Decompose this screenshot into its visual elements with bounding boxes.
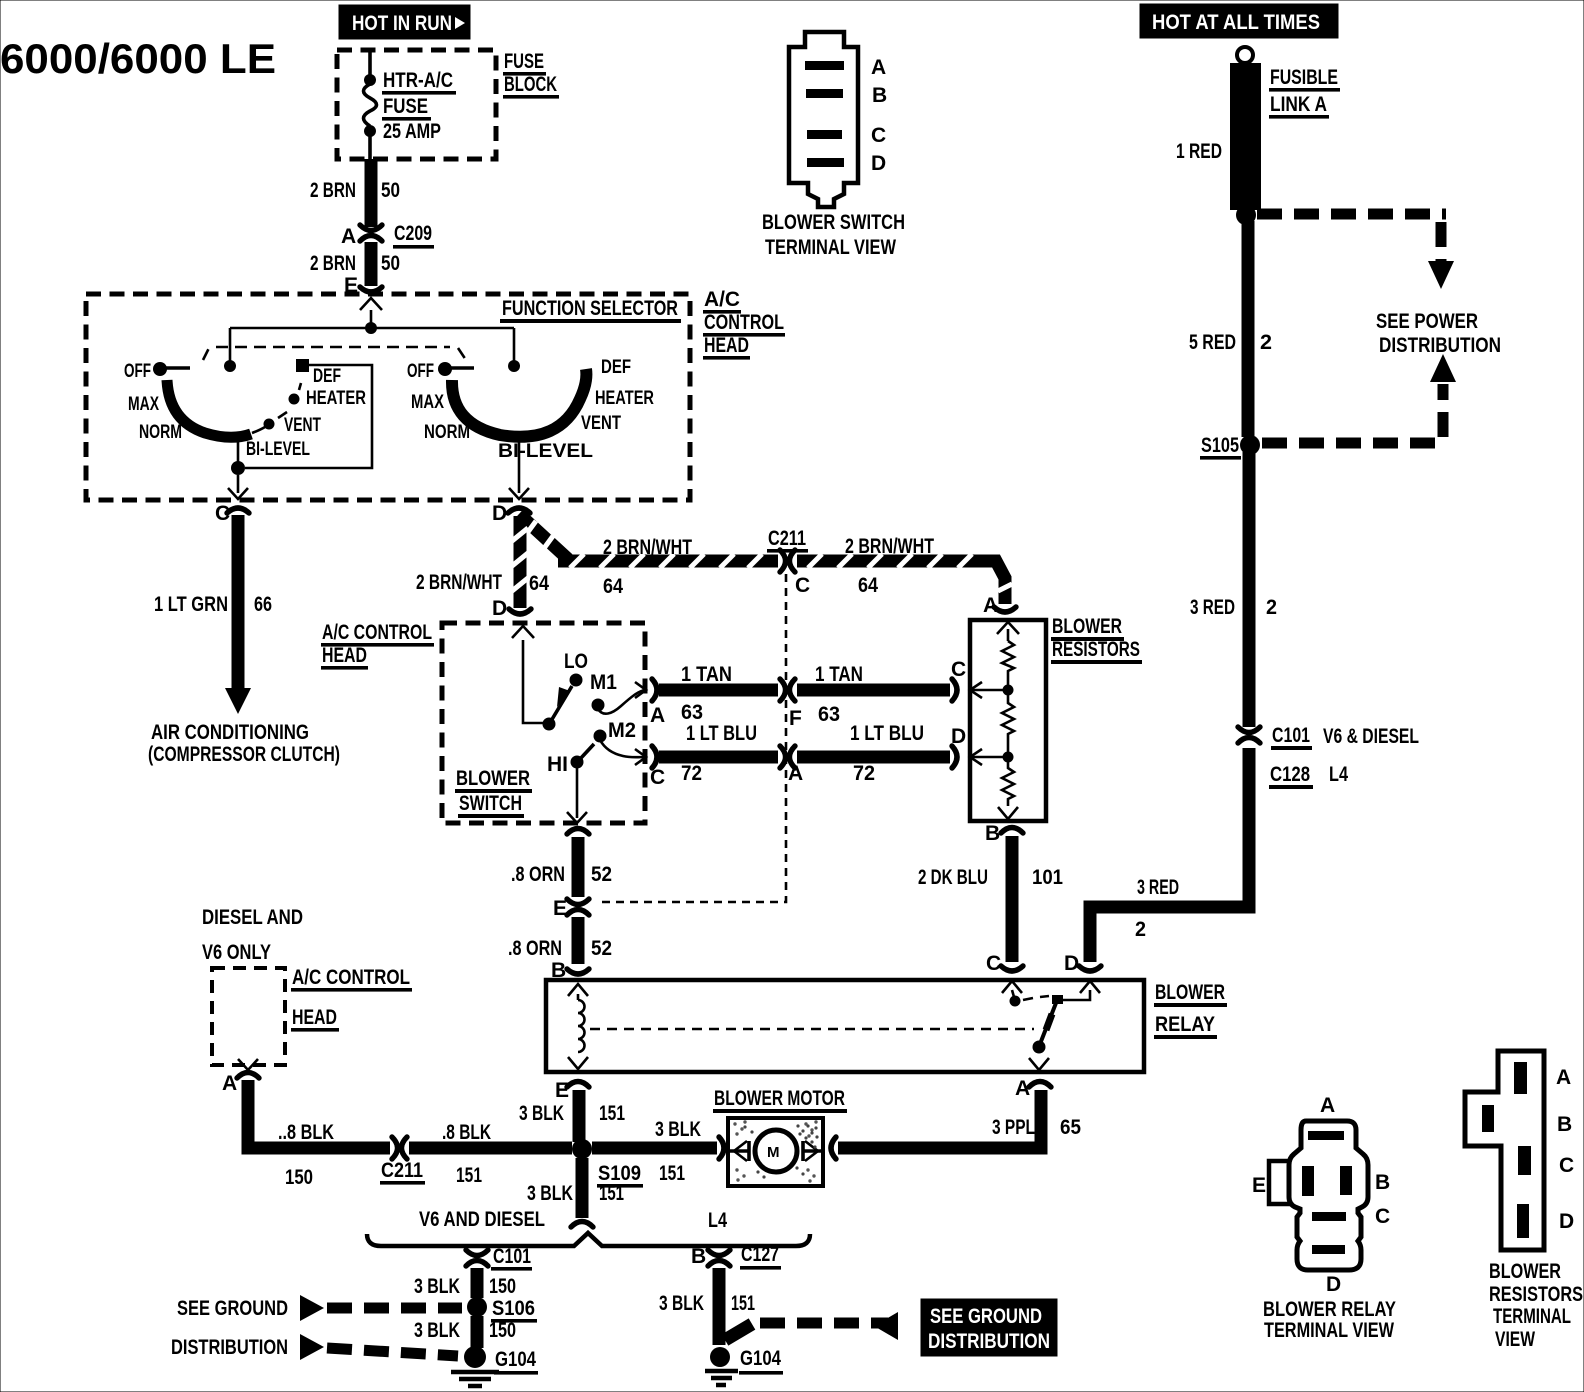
- connector C211 dashed outline: [598, 574, 786, 902]
- svg-text:50: 50: [381, 179, 400, 202]
- svg-text:3 PPL: 3 PPL: [992, 1116, 1035, 1139]
- svg-text:DIESEL AND: DIESEL AND: [202, 906, 303, 929]
- label 2 BRN/WHT 64 right: [845, 535, 934, 597]
- pin C blower switch: [635, 746, 665, 789]
- svg-text:2 BRN/WHT: 2 BRN/WHT: [416, 571, 502, 594]
- air conditioning load label: [148, 721, 340, 766]
- svg-text:A: A: [1556, 1066, 1571, 1089]
- left rotary switch OFF contact: [153, 362, 190, 376]
- wire 1 LT BLU 72 left: [659, 751, 778, 764]
- svg-text:RESISTORS: RESISTORS: [1489, 1283, 1583, 1306]
- svg-text:50: 50: [381, 252, 400, 275]
- svg-text:72: 72: [853, 762, 875, 785]
- wire 3 RED 2 upper: [1243, 452, 1256, 727]
- wire into fuse: [368, 50, 372, 80]
- svg-text:101: 101: [1032, 866, 1063, 889]
- svg-text:72: 72: [681, 762, 702, 785]
- svg-text:HEATER: HEATER: [306, 388, 366, 409]
- svg-text:D: D: [492, 502, 507, 525]
- dashed wire to ground distribution right: [725, 1312, 898, 1340]
- label 3 BLK 151: [519, 1102, 625, 1125]
- svg-text:C: C: [1559, 1154, 1574, 1177]
- svg-text:BI-LEVEL: BI-LEVEL: [246, 439, 310, 460]
- svg-text:1 LT BLU: 1 LT BLU: [850, 722, 924, 745]
- svg-text:HEAD: HEAD: [322, 644, 367, 667]
- blower resistors terminal labels: [1556, 1066, 1574, 1233]
- label 1 LT BLU 72 left: [681, 722, 757, 785]
- svg-text:..8 BLK: ..8 BLK: [278, 1121, 334, 1144]
- pin C blower relay: [986, 952, 1023, 993]
- svg-text:VENT: VENT: [581, 413, 621, 434]
- blower switch terminal view connector: [789, 32, 858, 207]
- svg-text:65: 65: [1060, 1116, 1081, 1139]
- dashed wire to power distribution: [1257, 214, 1454, 289]
- resistor R2: [1002, 695, 1014, 752]
- svg-text:3 BLK: 3 BLK: [659, 1292, 704, 1315]
- svg-text:E: E: [555, 1079, 569, 1102]
- svg-text:A/C CONTROL: A/C CONTROL: [292, 966, 410, 989]
- a/c control head diesel box: [212, 968, 285, 1065]
- svg-text:AIR CONDITIONING: AIR CONDITIONING: [151, 721, 309, 744]
- diesel and v6 only note: [202, 906, 303, 964]
- svg-text:E: E: [1252, 1174, 1266, 1197]
- svg-text:V6 AND DIESEL: V6 AND DIESEL: [419, 1208, 545, 1231]
- svg-text:.8 BLK: .8 BLK: [442, 1121, 491, 1144]
- hot at all times flag: [1140, 4, 1338, 38]
- svg-text:64: 64: [529, 572, 549, 595]
- dashed wire from S105 to power distribution: [1262, 354, 1456, 443]
- svg-text:FUSIBLE: FUSIBLE: [1270, 66, 1338, 89]
- relay coil to contact dashed link: [590, 1028, 1034, 1031]
- wire 2 BRN/WHT 64 hatched vertical: [512, 516, 528, 608]
- svg-text:25 AMP: 25 AMP: [383, 120, 441, 143]
- wire .8 ORN 52 upper: [567, 829, 589, 898]
- blower relay terminal labels: [1252, 1094, 1390, 1296]
- label 1 LT GRN 66: [154, 593, 272, 616]
- splice S106: [467, 1297, 537, 1323]
- resistor chain top: [1007, 629, 1010, 641]
- blower resistors terminal view connector: [1465, 1051, 1544, 1250]
- svg-text:HOT AT ALL TIMES: HOT AT ALL TIMES: [1152, 11, 1320, 34]
- svg-text:C: C: [650, 766, 665, 789]
- pin B connector C127: [691, 1243, 781, 1270]
- svg-text:3 BLK: 3 BLK: [527, 1182, 573, 1205]
- svg-text:C127: C127: [741, 1243, 779, 1266]
- A/C control head function selector box: [86, 294, 690, 500]
- wire 3 BLK 151 below S109: [571, 1158, 593, 1227]
- wire M1 to pin A: [598, 690, 645, 714]
- svg-text:A: A: [222, 1072, 237, 1095]
- svg-text:DISTRIBUTION: DISTRIBUTION: [928, 1330, 1050, 1353]
- see ground distribution flag right: [921, 1299, 1057, 1356]
- connector C209: [341, 222, 434, 249]
- svg-text:A/C: A/C: [704, 288, 740, 311]
- svg-text:FUSE: FUSE: [504, 50, 544, 73]
- svg-text:SWITCH: SWITCH: [459, 792, 522, 815]
- label 2 BRN 50 lower: [310, 252, 400, 275]
- svg-text:RELAY: RELAY: [1155, 1013, 1215, 1036]
- svg-text:63: 63: [681, 701, 703, 724]
- svg-text:B: B: [872, 84, 887, 107]
- svg-text:2 BRN/WHT: 2 BRN/WHT: [603, 536, 692, 559]
- svg-text:1 TAN: 1 TAN: [815, 663, 863, 686]
- svg-text:64: 64: [603, 575, 623, 598]
- svg-text:DISTRIBUTION: DISTRIBUTION: [1379, 334, 1501, 357]
- svg-text:CONTROL: CONTROL: [704, 311, 784, 334]
- left switch position labels: [124, 361, 366, 460]
- label 3 BLK 151 motor wire: [655, 1118, 701, 1185]
- wire .8 ORN 52 lower: [572, 917, 585, 964]
- node selector feed: [365, 322, 377, 334]
- label 3 PPL 65: [992, 1116, 1081, 1139]
- svg-text:3 BLK: 3 BLK: [414, 1275, 460, 1298]
- svg-text:HOT IN RUN: HOT IN RUN: [352, 12, 452, 35]
- svg-text:HEATER: HEATER: [595, 388, 654, 409]
- svg-text:151: 151: [456, 1164, 482, 1187]
- svg-text:VIEW: VIEW: [1495, 1328, 1535, 1351]
- contact HI: [547, 744, 594, 776]
- node fuse top: [364, 74, 376, 86]
- right switch output tap: [509, 440, 529, 499]
- svg-text:150: 150: [489, 1319, 516, 1342]
- svg-text:151: 151: [659, 1162, 685, 1185]
- svg-text:A: A: [788, 762, 803, 785]
- svg-text:HEAD: HEAD: [704, 334, 749, 357]
- svg-text:HTR-A/C: HTR-A/C: [383, 69, 453, 92]
- node fuse bottom: [364, 125, 376, 137]
- svg-text:V6 ONLY: V6 ONLY: [202, 941, 271, 964]
- svg-text:SEE GROUND: SEE GROUND: [177, 1297, 288, 1320]
- wire 2 BRN/WHT 64 hatched diagonal: [519, 514, 568, 559]
- svg-text:6000/6000 LE: 6000/6000 LE: [0, 35, 276, 82]
- svg-text:C128: C128: [1270, 763, 1310, 786]
- svg-text:3 BLK: 3 BLK: [414, 1319, 460, 1342]
- a/c control head blower switch box: [442, 623, 645, 823]
- svg-text:L4: L4: [708, 1209, 727, 1232]
- node left switch output: [231, 461, 245, 475]
- svg-text:B: B: [985, 822, 1000, 845]
- wire 2 DK BLU 101: [1006, 836, 1019, 962]
- resistor chain bottom arrow: [998, 807, 1018, 819]
- fusible link label: [1269, 66, 1340, 119]
- svg-text:C101: C101: [493, 1245, 531, 1268]
- wire 1 TAN 63 left: [659, 684, 778, 697]
- svg-text:C: C: [1375, 1205, 1390, 1228]
- blower resistors label: [1051, 615, 1142, 664]
- pin B blower relay: [551, 959, 589, 996]
- svg-text:D: D: [871, 152, 886, 175]
- svg-text:G104: G104: [740, 1347, 781, 1370]
- blower relay terminal view connector: [1269, 1121, 1368, 1270]
- svg-text:1 RED: 1 RED: [1176, 140, 1222, 163]
- wire selector feed: [230, 310, 514, 363]
- svg-text:FUNCTION SELECTOR: FUNCTION SELECTOR: [502, 297, 678, 320]
- label 5 RED 2: [1189, 331, 1272, 354]
- svg-text:F: F: [789, 707, 802, 730]
- svg-text:2: 2: [1266, 596, 1277, 619]
- connector C211 pin A: [780, 746, 803, 785]
- svg-text:C211: C211: [381, 1159, 423, 1182]
- right switch wiper arc MAX to DEF: [452, 369, 586, 437]
- left switch wiper arc MAX-NORM-BI-LEVEL: [167, 380, 251, 437]
- blower switch wiper arm: [551, 686, 572, 721]
- wire fuse to box edge: [368, 135, 372, 159]
- splice S109: [572, 1139, 643, 1188]
- label 2 DK BLU 101: [918, 866, 1063, 889]
- svg-text:63: 63: [818, 703, 840, 726]
- wire 1 LT GRN 66: [225, 515, 251, 714]
- left switch DEF feedback line: [245, 365, 372, 468]
- svg-text:VENT: VENT: [284, 415, 321, 436]
- svg-text:150: 150: [285, 1166, 313, 1189]
- see ground distribution note left: [171, 1297, 288, 1359]
- svg-text:2: 2: [1135, 918, 1146, 941]
- svg-text:3 RED: 3 RED: [1137, 876, 1179, 899]
- wire 5 RED 2: [1242, 221, 1255, 437]
- svg-text:151: 151: [731, 1292, 755, 1315]
- label 3 BLK 151 right: [659, 1292, 755, 1315]
- blower switch feed wire: [523, 640, 543, 723]
- svg-text:BLOWER: BLOWER: [456, 767, 530, 790]
- svg-text:BLOWER: BLOWER: [1489, 1260, 1561, 1283]
- resistor R1: [1002, 641, 1014, 685]
- svg-text:52: 52: [591, 937, 612, 960]
- label 1 TAN 63 left: [681, 663, 732, 724]
- pin E blower relay: [555, 1079, 589, 1102]
- svg-text:BLOWER: BLOWER: [1052, 615, 1122, 638]
- svg-text:.8 ORN: .8 ORN: [508, 937, 562, 960]
- svg-text:150: 150: [489, 1275, 516, 1298]
- svg-text:B: B: [1557, 1113, 1572, 1136]
- svg-text:2: 2: [1260, 331, 1272, 354]
- left switch thin arc VENT-HEATER-DEF: [252, 359, 309, 433]
- relay armature: [1029, 995, 1063, 1070]
- dashed wire to G104 left: [300, 1334, 458, 1360]
- hot-in-run flag: [339, 5, 470, 39]
- right rotary switch OFF contact: [438, 362, 474, 376]
- connector C211 pin F: [780, 679, 802, 730]
- label .8 BLK 151: [442, 1121, 491, 1187]
- wire 3 RED 2 feed to relay: [1090, 748, 1249, 962]
- svg-text:HEAD: HEAD: [292, 1006, 337, 1029]
- svg-text:TERMINAL VIEW: TERMINAL VIEW: [765, 236, 896, 259]
- label 3 RED 2 lower: [1135, 876, 1179, 941]
- contact LO: [564, 650, 588, 687]
- svg-text:151: 151: [599, 1182, 624, 1205]
- svg-text:DISTRIBUTION: DISTRIBUTION: [171, 1336, 288, 1359]
- svg-text:BLOCK: BLOCK: [504, 73, 557, 96]
- wire 3 PPL 65: [838, 1090, 1041, 1148]
- wire 3 BLK 151 relay to S109: [573, 1090, 586, 1142]
- svg-text:(COMPRESSOR CLUTCH): (COMPRESSOR CLUTCH): [148, 743, 340, 766]
- svg-text:M2: M2: [608, 719, 636, 742]
- label .8 ORN 52 lower: [508, 937, 612, 960]
- wire M2 to pin C: [600, 740, 645, 757]
- svg-text:D: D: [492, 597, 507, 620]
- wire 3 BLK 150 upper: [471, 1268, 484, 1298]
- label 3 BLK 150 upper: [414, 1275, 516, 1298]
- blower relay box: [546, 980, 1144, 1072]
- svg-text:MAX: MAX: [411, 392, 444, 413]
- svg-text:M1: M1: [590, 671, 617, 694]
- svg-text:D: D: [1326, 1273, 1341, 1296]
- resistor R3: [1002, 762, 1014, 806]
- svg-text:3 BLK: 3 BLK: [519, 1102, 564, 1125]
- svg-text:V6 & DIESEL: V6 & DIESEL: [1323, 725, 1419, 748]
- svg-text:C211: C211: [768, 527, 806, 550]
- wire 3 BLK 150 lower: [471, 1316, 484, 1348]
- svg-text:LINK A: LINK A: [1270, 93, 1327, 116]
- svg-text:B: B: [691, 1245, 706, 1268]
- splice S105: [1200, 434, 1260, 460]
- connector C211 top: [767, 527, 810, 597]
- svg-text:BLOWER: BLOWER: [1155, 981, 1225, 1004]
- relay fixed contact D: [1062, 990, 1090, 1000]
- pin A blower resistors: [983, 594, 1019, 634]
- svg-text:BI-LEVEL: BI-LEVEL: [498, 441, 593, 462]
- svg-text:5 RED: 5 RED: [1189, 331, 1236, 354]
- svg-text:DEF: DEF: [601, 357, 631, 378]
- svg-text:2 BRN: 2 BRN: [310, 252, 356, 275]
- wire HI to pin B: [567, 768, 587, 823]
- a/c control head label mid: [321, 621, 434, 670]
- svg-text:M: M: [767, 1144, 780, 1161]
- svg-text:C: C: [795, 574, 810, 597]
- node resistor tap C: [1003, 685, 1014, 696]
- wire 2 BRN/WHT 64 hatched right of C211: [797, 554, 1012, 604]
- svg-text:3 RED: 3 RED: [1190, 596, 1235, 619]
- label 3 BLK 151 below S109: [527, 1182, 624, 1205]
- pin B blower resistors: [985, 822, 1023, 845]
- function selector title: [500, 297, 681, 323]
- fuse block label: [503, 50, 559, 99]
- right switch position labels: [407, 357, 654, 462]
- a/c control head label: [703, 288, 785, 360]
- connector C101 C128 inline: [1238, 724, 1419, 789]
- blower motor label: [713, 1087, 847, 1113]
- label 2 BRN 50: [310, 179, 400, 202]
- svg-text:OFF: OFF: [124, 361, 151, 382]
- svg-text:1 LT BLU: 1 LT BLU: [686, 722, 757, 745]
- connector C211 pin E: [553, 897, 589, 920]
- blower switch terminal view caption: [762, 211, 905, 259]
- contact M1: [590, 671, 617, 712]
- pin A blower switch: [635, 679, 665, 727]
- svg-text:1 LT GRN: 1 LT GRN: [154, 593, 228, 616]
- svg-text:64: 64: [858, 574, 878, 597]
- svg-text:NORM: NORM: [424, 422, 470, 443]
- fusible link A: [1230, 63, 1261, 210]
- svg-text:C209: C209: [394, 222, 432, 245]
- wire 3 BLK 151 right: [713, 1268, 726, 1345]
- relay fixed contact C: [1010, 990, 1050, 1007]
- relay coil: [568, 994, 588, 1069]
- svg-text:B: B: [1375, 1171, 1390, 1194]
- pin D below selector: [492, 502, 530, 525]
- wire 1 LT BLU 72 right: [797, 751, 950, 764]
- label 2 BRN/WHT 64 left: [603, 536, 692, 598]
- blower switch label: [455, 767, 532, 818]
- left switch bi-level tap: [237, 438, 240, 462]
- svg-text:D: D: [1064, 952, 1079, 975]
- wire 2 BRN/WHT 64 hatched horizontal to C211: [558, 554, 778, 568]
- node left switch input: [224, 360, 236, 372]
- connector C211 bottom: [380, 1137, 425, 1185]
- node below fusible link: [1236, 205, 1256, 225]
- wire 3 BLK 151 S109 to motor: [592, 1142, 717, 1155]
- svg-text:S106: S106: [492, 1297, 535, 1320]
- pin C below selector: [215, 502, 249, 525]
- node blower switch pivot: [543, 718, 556, 731]
- label ..8 BLK 150: [278, 1121, 334, 1189]
- svg-text:A: A: [1320, 1094, 1335, 1117]
- svg-text:TERMINAL: TERMINAL: [1493, 1305, 1571, 1328]
- svg-text:D: D: [1559, 1210, 1574, 1233]
- svg-text:FUSE: FUSE: [383, 95, 428, 118]
- connector C101 bottom: [466, 1245, 532, 1271]
- pin E function selector: [344, 274, 382, 310]
- svg-text:2 DK BLU: 2 DK BLU: [918, 866, 988, 889]
- svg-text:BLOWER MOTOR: BLOWER MOTOR: [714, 1087, 845, 1110]
- blower resistors terminal view caption: [1489, 1260, 1583, 1351]
- blower switch terminal labels: [871, 56, 887, 175]
- pin D blower switch: [492, 597, 534, 638]
- svg-text:NORM: NORM: [139, 422, 182, 443]
- blower relay terminal view caption: [1263, 1298, 1396, 1342]
- svg-text:SEE POWER: SEE POWER: [1376, 310, 1478, 333]
- svg-text:151: 151: [599, 1102, 625, 1125]
- svg-text:BLOWER RELAY: BLOWER RELAY: [1263, 1298, 1396, 1321]
- a/c control head diesel label: [291, 966, 412, 1032]
- svg-text:3 BLK: 3 BLK: [655, 1118, 701, 1141]
- svg-text:C: C: [986, 952, 1001, 975]
- ground G104 left: [451, 1346, 538, 1386]
- svg-text:2 BRN: 2 BRN: [310, 179, 356, 202]
- svg-text:C101: C101: [1272, 724, 1310, 747]
- node resistor tap D: [1003, 752, 1014, 763]
- svg-text:OFF: OFF: [407, 361, 434, 382]
- contact M2: [594, 719, 637, 743]
- label 3 BLK 150 lower: [414, 1319, 516, 1342]
- svg-text:A: A: [871, 56, 886, 79]
- svg-text:LO: LO: [564, 650, 588, 673]
- wire ..8 BLK 150: [248, 1080, 390, 1148]
- blower resistors box: [970, 620, 1046, 821]
- svg-text:G104: G104: [495, 1348, 536, 1371]
- svg-text:TERMINAL VIEW: TERMINAL VIEW: [1264, 1319, 1394, 1342]
- wire 1 TAN 63 right: [797, 684, 950, 697]
- svg-text:1 TAN: 1 TAN: [681, 663, 732, 686]
- ground G104 right: [705, 1347, 783, 1385]
- wire .8 BLK 151: [409, 1142, 572, 1155]
- blower motor: [719, 1118, 836, 1186]
- fuse HTR-A/C label: [382, 69, 456, 143]
- label 3 RED 2: [1190, 596, 1277, 619]
- pin C blower resistors: [951, 658, 1003, 701]
- battery terminal ring: [1237, 47, 1253, 63]
- svg-text:L4: L4: [1329, 763, 1348, 786]
- wire 2 BRN 50 lower: [365, 242, 378, 286]
- node right switch input: [508, 360, 520, 372]
- brace: [367, 1233, 810, 1246]
- svg-text:MAX: MAX: [128, 394, 159, 415]
- svg-text:S105: S105: [1201, 434, 1239, 457]
- svg-text:RESISTORS: RESISTORS: [1052, 638, 1140, 661]
- svg-text:.8 ORN: .8 ORN: [511, 863, 565, 886]
- svg-text:DEF: DEF: [313, 366, 341, 387]
- dashed wire to S106: [300, 1295, 462, 1321]
- fuse block box: [337, 50, 496, 159]
